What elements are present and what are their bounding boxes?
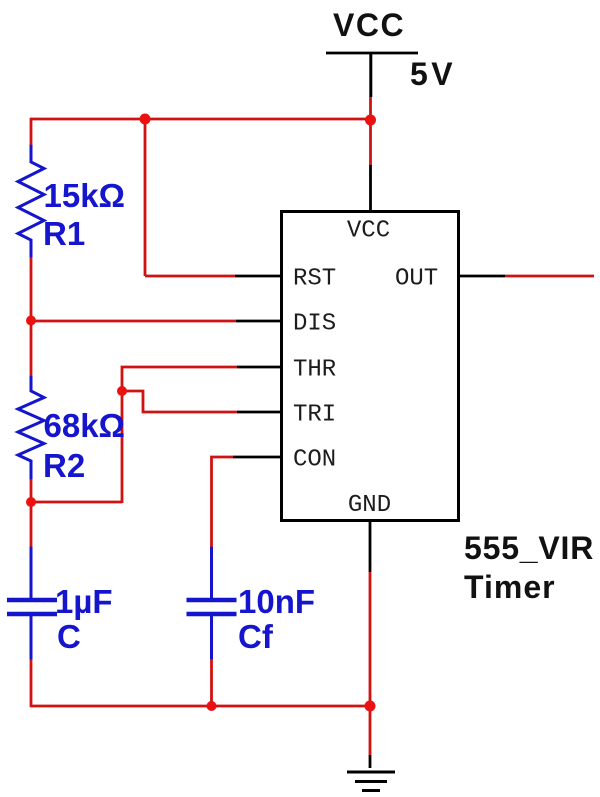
svg-text:TRI: TRI xyxy=(293,402,336,429)
wire RST branch xyxy=(145,119,235,276)
wire THR with vertical drop xyxy=(122,367,237,503)
svg-text:68kΩ: 68kΩ xyxy=(44,407,126,444)
junction node R2 bottom xyxy=(26,497,36,507)
svg-text:VCC: VCC xyxy=(333,7,405,43)
svg-text:Cf: Cf xyxy=(238,618,274,655)
svg-text:5V: 5V xyxy=(410,56,456,92)
wire top horizontal rail xyxy=(31,118,371,121)
svg-text:CON: CON xyxy=(293,447,336,474)
junction node THR-TRI xyxy=(117,386,127,396)
junction node GND rail xyxy=(365,701,376,712)
svg-text:555_VIR: 555_VIR xyxy=(464,530,594,566)
wire DIS xyxy=(31,320,236,323)
wire left rail red segments xyxy=(30,118,33,708)
wire GND vertical red xyxy=(369,572,372,755)
wire VCC vertical red xyxy=(369,97,372,165)
pin stub TRI xyxy=(237,411,280,414)
svg-text:THR: THR xyxy=(293,357,336,384)
pin stub THR xyxy=(237,366,280,369)
svg-text:RST: RST xyxy=(293,266,336,293)
svg-text:C: C xyxy=(57,618,81,655)
svg-text:DIS: DIS xyxy=(293,311,336,338)
wire OUT red xyxy=(505,275,594,278)
junction node Cf bottom xyxy=(207,701,217,711)
wire R2 bottom horizontal xyxy=(31,501,122,504)
svg-text:10nF: 10nF xyxy=(238,583,315,620)
resistor R2 xyxy=(18,376,44,480)
svg-text:15kΩ: 15kΩ xyxy=(44,177,126,214)
svg-text:GND: GND xyxy=(348,492,391,519)
resistor R1 xyxy=(18,145,44,258)
wire TRI branch xyxy=(122,391,237,412)
pin stub VCC top xyxy=(369,165,372,210)
svg-text:OUT: OUT xyxy=(395,266,438,293)
pin stub RST xyxy=(235,275,280,278)
svg-text:Timer: Timer xyxy=(464,569,556,605)
junction node DIS rail xyxy=(26,316,36,326)
svg-text:VCC: VCC xyxy=(347,218,390,245)
svg-text:R2: R2 xyxy=(43,447,85,484)
svg-text:1µF: 1µF xyxy=(55,583,113,620)
pin stub DIS xyxy=(236,320,280,323)
capacitor C xyxy=(30,547,33,598)
wire GND bottom black xyxy=(369,755,372,768)
svg-text:R1: R1 xyxy=(43,215,85,252)
pin stub GND bottom xyxy=(369,522,372,572)
pin stub CON xyxy=(233,456,280,459)
ground symbol xyxy=(347,771,395,774)
junction node top-left rail tap xyxy=(140,114,151,125)
junction node VCC xyxy=(365,115,376,126)
wire bottom rail xyxy=(31,705,370,708)
op IC 555 box U1 xyxy=(282,212,459,521)
pin stub OUT xyxy=(460,275,505,278)
wire CON branch xyxy=(212,457,234,707)
power symbol VCC xyxy=(326,52,418,55)
capacitor Cf xyxy=(210,547,213,598)
